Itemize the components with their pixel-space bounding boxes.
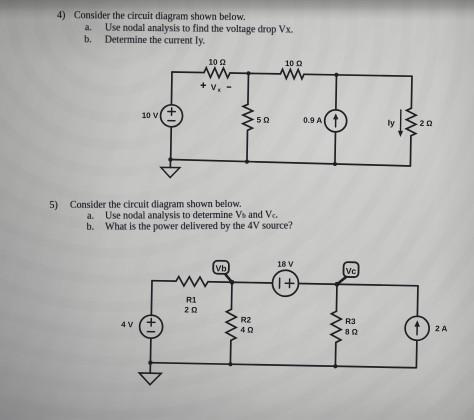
node dot bottom 0.9A — [333, 162, 337, 166]
problem 5 text — [0, 0, 473, 1]
svg-text:Vc: Vc — [346, 266, 357, 276]
label Vx plus — [201, 83, 206, 88]
wire top segment R1 to Vb node — [208, 281, 232, 283]
svg-text:2 A: 2 A — [435, 324, 448, 333]
resistor 5ohm — [243, 104, 253, 130]
wire right branch upper — [410, 76, 413, 108]
node dot top 5ohm — [246, 71, 250, 75]
wire 18V to Vc node — [298, 283, 336, 286]
node dot ground — [148, 360, 152, 364]
V2 minus bar — [278, 278, 280, 288]
wire bottom — [170, 159, 410, 165]
svg-text:2 Ω: 2 Ω — [184, 305, 197, 314]
wire top left segment — [152, 280, 176, 282]
wire left branch lower — [170, 127, 173, 160]
I1 arrow — [335, 118, 337, 127]
ground stub — [149, 363, 151, 373]
wire Vc node to top right — [337, 284, 418, 286]
wire left branch upper — [170, 72, 173, 105]
current source I1 0.9A circle — [324, 110, 346, 132]
wire top left segment — [172, 71, 204, 74]
current source I2 2A circle — [405, 316, 429, 340]
V1 minus sign — [168, 120, 175, 122]
ground triangle — [161, 167, 180, 177]
node label box Vb — [213, 261, 229, 274]
wire 5ohm branch lower — [246, 131, 249, 161]
wire 5ohm branch upper — [247, 73, 250, 104]
V2 plus sign — [285, 279, 294, 288]
resistor R2 — [226, 309, 237, 340]
V3 minus sign — [147, 331, 154, 333]
wire R3 branch upper — [335, 284, 338, 311]
svg-text:4 Ω: 4 Ω — [240, 325, 253, 334]
wire top right segment — [304, 74, 412, 76]
svg-text:R1: R1 — [186, 295, 197, 304]
wire right branch lower — [409, 136, 412, 166]
wire R3 branch lower — [334, 342, 336, 366]
voltage source V2 18V circle — [272, 270, 298, 296]
resistor R1 — [176, 277, 208, 287]
svg-text:Vb: Vb — [215, 263, 226, 273]
voltage source V3 4V circle — [139, 315, 162, 338]
I2 arrow — [416, 325, 418, 335]
resistor 2ohm — [406, 108, 416, 136]
node dot ground — [168, 157, 172, 161]
node dot R3 bottom — [333, 364, 337, 368]
resistor R3 — [331, 311, 342, 342]
voltage source V1 10V circle — [160, 105, 182, 127]
svg-text:8 Ω: 8 Ω — [345, 327, 358, 336]
wire 0.9A branch upper — [335, 75, 338, 110]
ground triangle — [139, 373, 161, 385]
pointer Vc — [337, 277, 346, 285]
Iy arrow — [399, 110, 401, 132]
pointer Vb — [225, 275, 232, 283]
wire bottom — [150, 363, 415, 368]
svg-text:R3: R3 — [345, 317, 356, 326]
svg-text:18 V: 18 V — [277, 260, 294, 269]
wire left branch upper — [150, 281, 153, 316]
node dot top 0.9A — [334, 73, 338, 77]
resistor 10ohm left — [204, 68, 230, 78]
node label box Vc — [343, 262, 358, 277]
V1 plus sign — [168, 108, 176, 116]
wire right branch lower — [415, 340, 418, 367]
svg-text:R2: R2 — [241, 315, 252, 324]
wire 0.9A branch lower — [334, 132, 337, 164]
wire Vb node to 18V source — [232, 281, 272, 284]
ground stub — [169, 159, 171, 167]
problem 4 text — [0, 0, 474, 5]
wire R2 branch upper — [230, 282, 233, 309]
wire right branch upper — [416, 286, 419, 316]
svg-text:4 V: 4 V — [121, 320, 134, 329]
wire left branch lower — [149, 338, 151, 362]
resistor 10ohm right — [280, 69, 304, 79]
V3 plus sign — [147, 318, 155, 326]
wire top mid segment — [230, 72, 280, 75]
node Vb dot — [230, 280, 235, 285]
node dot bottom 5ohm — [245, 159, 249, 163]
node dot R2 bottom — [228, 362, 232, 366]
wire R2 branch lower — [229, 340, 231, 364]
label Vx minus — [227, 86, 231, 88]
node Vc dot — [335, 282, 340, 287]
